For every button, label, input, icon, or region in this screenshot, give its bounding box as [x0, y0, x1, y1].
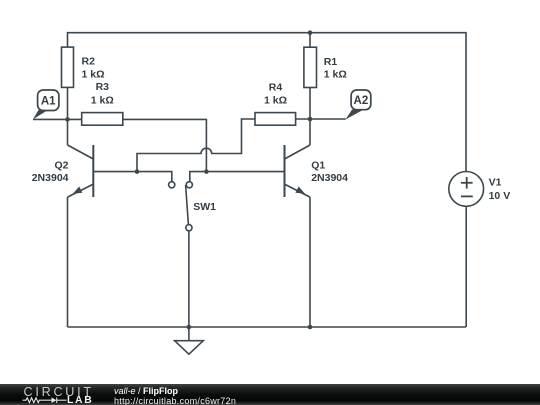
voltage source V1	[449, 172, 484, 328]
CircuitLab logo	[0, 384, 100, 405]
svg-text:LAB: LAB	[67, 395, 93, 405]
wire Q2 emitter down	[67, 197, 69, 327]
footer bar	[0, 384, 540, 405]
svg-text:2N3904: 2N3904	[32, 172, 69, 184]
footer text	[114, 387, 236, 405]
node Q1 emitter junction	[308, 325, 313, 330]
flag A2	[346, 90, 371, 120]
node A1 junction	[65, 117, 70, 122]
node top junction	[308, 30, 313, 35]
svg-text:Q2: Q2	[54, 160, 68, 172]
wire node A1 stub	[33, 118, 82, 120]
node Q1 base junction	[204, 169, 209, 174]
node A2 junction	[308, 117, 313, 122]
node ground junction	[187, 325, 192, 330]
svg-text:1 kΩ: 1 kΩ	[91, 94, 114, 106]
wire Q2 base	[93, 172, 172, 182]
svg-text:1 kΩ: 1 kΩ	[82, 69, 105, 81]
transistor Q2	[68, 145, 94, 197]
flag A1	[33, 90, 59, 119]
node Q2 base junction	[135, 169, 140, 174]
wire Q1 base	[190, 172, 285, 182]
switch SW1	[169, 182, 193, 327]
resistor R2	[62, 47, 74, 87]
svg-text:V1: V1	[489, 176, 502, 188]
wire R1 top	[309, 33, 311, 48]
svg-text:R3: R3	[96, 81, 110, 93]
resistor R3	[82, 113, 123, 126]
wire R4 right / node A2 stub	[296, 118, 346, 120]
wire top rail	[68, 33, 467, 172]
svg-text:SW1: SW1	[193, 201, 216, 213]
svg-text:A2: A2	[354, 95, 369, 107]
svg-text:Q1: Q1	[311, 160, 325, 172]
resistor R4	[255, 113, 296, 126]
resistor R1	[304, 47, 317, 87]
wire cross link to R4	[137, 119, 255, 172]
svg-text:R1: R1	[324, 56, 338, 68]
svg-text:1 kΩ: 1 kΩ	[324, 69, 347, 81]
wire Q1 emitter down	[309, 197, 311, 327]
wire left rail mid	[67, 87, 69, 145]
svg-text:10 V: 10 V	[489, 190, 511, 202]
wire Q1 collector up	[309, 88, 311, 146]
svg-text:A1: A1	[41, 95, 56, 107]
svg-text:R4: R4	[269, 82, 283, 94]
svg-text:2N3904: 2N3904	[311, 172, 348, 184]
wire bottom rail	[68, 326, 467, 328]
ground	[175, 327, 204, 354]
svg-text:R2: R2	[82, 56, 96, 68]
svg-text:1 kΩ: 1 kΩ	[264, 94, 287, 106]
transistor Q1	[285, 145, 311, 197]
wire R3 right	[123, 119, 207, 171]
